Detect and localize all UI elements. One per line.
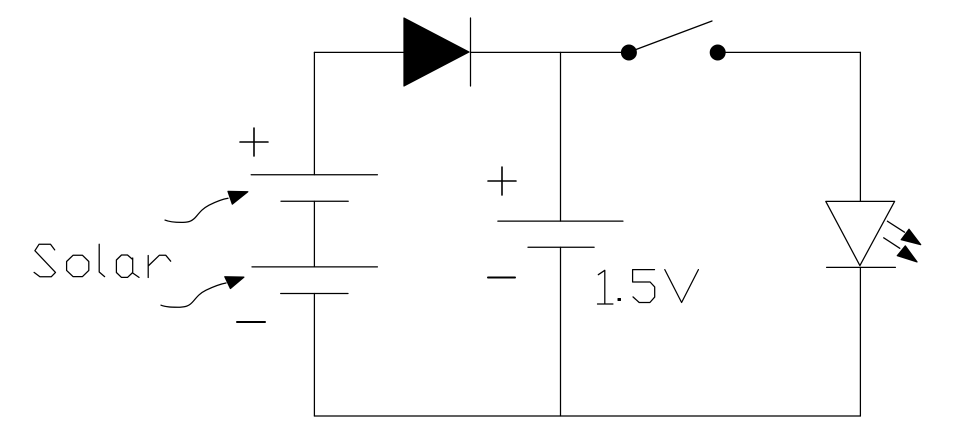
solar cell PV2 negative plate [281,293,348,295]
LED D2 triangle [826,201,895,265]
wire middle vertical lower [560,247,562,416]
wire top-left horizontal [314,51,404,53]
LED D2 cathode bar [827,266,896,268]
LED light arrow 2 shaft [884,238,900,249]
solar plus sign [240,128,268,156]
LED light arrow 1 head [901,229,921,244]
battery plus sign [488,167,516,195]
wire middle vertical upper [560,52,562,221]
LED light arrow 2 head [897,246,917,262]
label Solar text a [116,255,139,277]
solar light arrow 2 curve [161,283,226,307]
label Solar text l [99,244,104,276]
label 1.5V text 5 [633,270,655,303]
label 1.5V text 1 [598,270,613,304]
battery B1 negative plate [528,246,594,248]
solar light arrow 2 head [225,277,244,289]
label 1.5V text period [618,299,621,301]
solar cell PV1 negative plate [281,200,348,202]
label Solar text o [67,255,89,276]
wire between solar cells [313,201,315,267]
label Solar text r [148,255,171,277]
wire switch to top-right corner [725,51,860,53]
diode D1 anode triangle [404,18,469,86]
wire diode to switch [471,51,622,53]
label 1.5V text V [665,270,699,303]
switch S1 left contact dot [621,45,637,61]
label Solar text S [34,244,55,277]
battery B1 positive plate [498,220,623,222]
diode D1 cathode bar [470,18,472,86]
wire right vertical lower [859,267,861,416]
switch S1 right contact dot [710,45,726,61]
solar minus sign [237,321,265,323]
LED light arrow 1 shaft [887,221,904,232]
wire bottom horizontal [314,415,860,417]
battery minus sign [488,277,515,279]
solar light arrow 1 head [228,191,248,204]
wire right vertical upper (to LED) [859,52,861,201]
switch S1 lever [636,21,712,50]
solar light arrow 1 curve [165,198,228,222]
wire left vertical upper [313,52,315,174]
solar cell PV2 positive plate [252,266,377,268]
solar cell PV1 positive plate [251,174,377,176]
wire left vertical lower [313,294,315,417]
